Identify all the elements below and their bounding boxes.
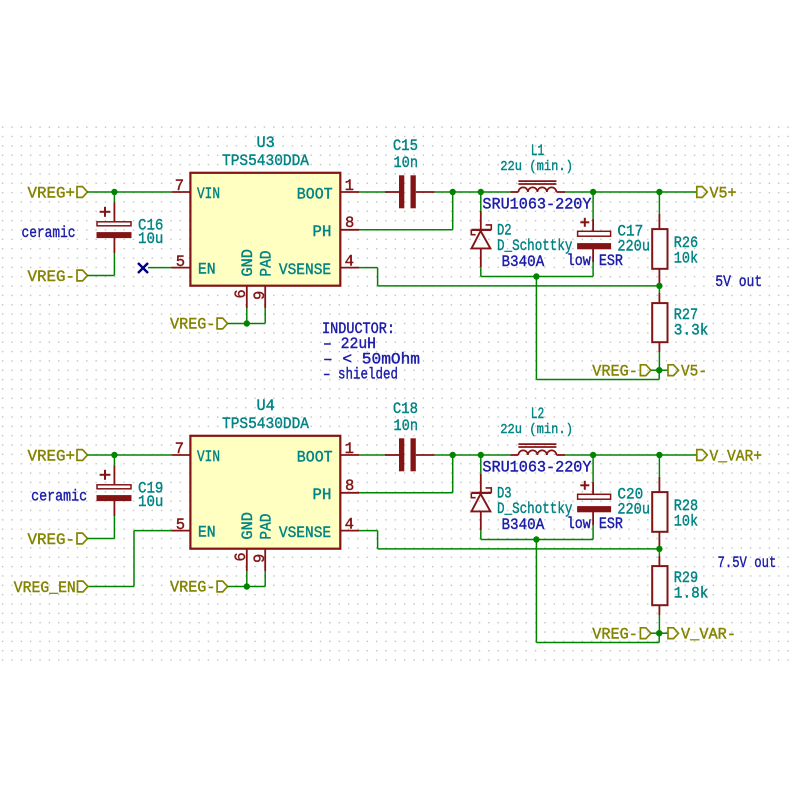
no-connect flag on EN	[138, 263, 148, 273]
svg-text:EN: EN	[198, 261, 216, 279]
resistor R28 10k	[658, 455, 660, 477]
wire output rail	[593, 191, 697, 193]
wire PH riser	[452, 192, 454, 230]
svg-text:10k: 10k	[674, 250, 698, 268]
wire BOOT to cap	[359, 191, 385, 193]
junction diode node	[478, 452, 484, 458]
svg-text:TPS5430DDA: TPS5430DDA	[222, 415, 310, 433]
svg-text:V5-: V5-	[681, 363, 707, 381]
pin 8 PH stub	[340, 492, 359, 494]
svg-text:C18: C18	[393, 400, 418, 418]
pin 1 BOOT stub	[340, 454, 359, 456]
pin 6 GND stub	[246, 549, 248, 571]
svg-text:10u: 10u	[138, 230, 163, 248]
resistor R29 1.8k	[658, 549, 660, 556]
wire VREG+ to VIN pin	[87, 191, 172, 193]
svg-text:5V out: 5V out	[715, 273, 762, 291]
svg-text:4: 4	[345, 253, 354, 271]
junction feedback node	[656, 546, 662, 552]
svg-text:BOOT: BOOT	[297, 448, 333, 466]
svg-text:7: 7	[175, 177, 184, 195]
wire feedback rail	[378, 548, 660, 550]
wire switch node to inductor	[481, 454, 511, 456]
svg-text:VREG+: VREG+	[28, 448, 76, 466]
svg-text:5: 5	[176, 253, 185, 271]
wire ground drop	[535, 540, 537, 643]
wire VREG- pentagon to junction	[228, 586, 247, 588]
wire pin6 to VREG- row	[246, 308, 248, 324]
diode D2 Schottky	[480, 192, 482, 211]
pin 5 EN stub	[172, 530, 191, 532]
svg-text:7: 7	[175, 440, 184, 458]
svg-text:C15: C15	[393, 137, 418, 155]
junction BOOT/PH node	[450, 452, 456, 458]
wire BOOT to cap	[359, 454, 385, 456]
svg-text:4: 4	[345, 516, 354, 534]
junction divider top	[656, 189, 662, 195]
svg-text:8: 8	[345, 477, 354, 495]
wire pin9 to junction	[247, 323, 265, 325]
wire pin6 to VREG- row	[246, 571, 248, 587]
svg-text:1.8k: 1.8k	[674, 584, 709, 602]
IC U4 TPS5430DDA body	[190, 436, 340, 549]
svg-text:SRU1063-220Y: SRU1063-220Y	[482, 459, 592, 477]
svg-text:EN: EN	[198, 524, 216, 542]
svg-text:10n: 10n	[394, 417, 419, 435]
wire pin9 down	[264, 571, 266, 587]
wire feedback rail	[378, 285, 660, 287]
junction output cap node	[590, 189, 596, 195]
pin 7 VIN stub	[172, 191, 190, 193]
junction GND/PAD	[244, 320, 250, 326]
wire inductor to output node	[565, 454, 593, 456]
junction divider top	[656, 452, 662, 458]
svg-text:8: 8	[345, 214, 354, 232]
pin 9 PAD stub	[264, 549, 266, 571]
svg-text:L1: L1	[531, 142, 545, 160]
svg-text:GND: GND	[239, 512, 257, 540]
junction feedback node	[656, 283, 662, 289]
wire EN drop	[133, 531, 135, 587]
svg-text:V_VAR-: V_VAR-	[681, 626, 736, 644]
capacitor C20 220u polarized	[592, 455, 594, 482]
svg-text:PH: PH	[312, 486, 331, 504]
wire junction to out- flag	[659, 369, 668, 371]
resistor R27 3.3k	[658, 286, 660, 293]
junction divider bottom	[656, 367, 662, 373]
wire diode-cap ground rail	[481, 539, 593, 541]
wire diode-cap ground rail	[481, 276, 593, 278]
svg-text:GND: GND	[239, 249, 257, 277]
wire rail riser to out-	[658, 633, 660, 642]
capacitor C18 10n	[385, 454, 399, 456]
junction ground rail	[533, 536, 539, 542]
svg-text:VREG+: VREG+	[28, 185, 76, 203]
wire PH riser	[452, 455, 454, 493]
svg-text:10n: 10n	[394, 154, 419, 172]
svg-text:VREG-: VREG-	[170, 316, 216, 334]
IC U3 TPS5430DDA body	[190, 173, 340, 286]
junction divider bottom	[656, 630, 662, 636]
wire pin9 down	[264, 308, 266, 324]
wire C-in bottom to VREG-	[113, 516, 115, 539]
svg-text:SRU1063-220Y: SRU1063-220Y	[482, 196, 592, 214]
svg-text:1: 1	[345, 440, 354, 458]
wire rail riser to out-	[658, 370, 660, 379]
wire VSENSE drop	[377, 268, 379, 286]
wire lowest rail	[536, 642, 659, 644]
wire VSENSE out	[359, 267, 378, 269]
wire EN to VREG_EN flag	[88, 586, 134, 588]
wire switch node	[453, 454, 481, 456]
svg-text:B340A: B340A	[502, 253, 545, 271]
wire lowest rail	[536, 379, 659, 381]
wire PH to riser	[359, 229, 453, 231]
wire PH to riser	[359, 492, 453, 494]
svg-text:22u (min.): 22u (min.)	[500, 159, 573, 175]
junction output cap node	[590, 452, 596, 458]
pin 4 VSENSE stub	[340, 267, 359, 269]
pin 5 EN stub	[172, 267, 191, 269]
wire VREG+ to VIN pin	[87, 454, 172, 456]
svg-text:VREG_EN: VREG_EN	[14, 579, 76, 597]
wire inductor to output node	[565, 191, 593, 193]
wire cap to switch node	[435, 454, 453, 456]
svg-text:low ESR: low ESR	[567, 252, 623, 270]
wire VREG- to junction	[651, 369, 659, 371]
wire VSENSE drop	[377, 531, 379, 549]
svg-text:U4: U4	[257, 397, 275, 415]
wire switch node	[453, 191, 481, 193]
svg-text:9: 9	[251, 554, 269, 563]
wire ground drop	[535, 277, 537, 380]
svg-text:PH: PH	[312, 223, 331, 241]
svg-text:6: 6	[232, 289, 250, 298]
svg-text:VIN: VIN	[197, 185, 220, 203]
pin 7 VIN stub	[172, 454, 190, 456]
svg-text:7.5V out: 7.5V out	[718, 554, 777, 572]
svg-text:TPS5430DDA: TPS5430DDA	[222, 152, 310, 170]
svg-text:VIN: VIN	[197, 448, 220, 466]
inductor L2 22u	[510, 454, 518, 456]
pin 4 VSENSE stub	[340, 530, 359, 532]
svg-text:B340A: B340A	[502, 516, 545, 534]
junction GND/PAD	[244, 583, 250, 589]
svg-text:ceramic: ceramic	[31, 488, 87, 506]
pin 8 PH stub	[340, 229, 359, 231]
wire VREG- to cap	[87, 538, 114, 540]
hierarchical label V_VAR+	[697, 450, 708, 461]
capacitor C15 10n	[385, 191, 399, 193]
wire VREG- to cap	[87, 275, 114, 277]
svg-text:VSENSE: VSENSE	[279, 524, 331, 542]
svg-text:PAD: PAD	[258, 251, 276, 277]
svg-text:6: 6	[232, 552, 250, 561]
svg-text:U3: U3	[257, 134, 275, 152]
wire C-in bottom to VREG-	[113, 253, 115, 276]
svg-text:VREG-: VREG-	[28, 268, 76, 286]
junction ground rail	[533, 273, 539, 279]
pin 1 BOOT stub	[340, 191, 359, 193]
wire EN to no-connect	[148, 267, 172, 269]
svg-text:VREG-: VREG-	[592, 626, 638, 644]
svg-text:VREG-: VREG-	[592, 363, 638, 381]
svg-text:ceramic: ceramic	[22, 224, 76, 242]
svg-text:L2: L2	[531, 405, 545, 423]
resistor R26 10k	[658, 192, 660, 214]
wire EN left	[134, 530, 172, 532]
junction BOOT/PH node	[450, 189, 456, 195]
wire pin9 to junction	[247, 586, 265, 588]
wire VSENSE out	[359, 530, 378, 532]
diode D3 Schottky	[480, 455, 482, 474]
svg-text:PAD: PAD	[258, 514, 276, 540]
wire VREG- to junction	[651, 632, 659, 634]
svg-text:BOOT: BOOT	[297, 185, 333, 203]
wire VREG- pentagon to junction	[228, 323, 247, 325]
svg-text:V_VAR+: V_VAR+	[710, 448, 763, 466]
svg-text:V5+: V5+	[710, 185, 737, 203]
wire cap to switch node	[435, 191, 453, 193]
inductor L1 22u	[510, 191, 518, 193]
junction at C-in top	[111, 189, 117, 195]
svg-text:22u (min.): 22u (min.)	[500, 422, 573, 438]
svg-text:5: 5	[176, 516, 185, 534]
hierarchical label V5-	[668, 365, 679, 376]
junction at C-in top	[111, 452, 117, 458]
svg-text:low ESR: low ESR	[567, 515, 623, 533]
wire switch node to inductor	[481, 191, 511, 193]
svg-text:– shielded: – shielded	[323, 366, 398, 384]
svg-text:1: 1	[345, 177, 354, 195]
hierarchical label V_VAR-	[668, 628, 679, 639]
pin 6 GND stub	[246, 286, 248, 308]
junction diode node	[478, 189, 484, 195]
svg-text:10u: 10u	[138, 493, 163, 511]
svg-text:VREG-: VREG-	[170, 579, 216, 597]
capacitor C17 220u polarized	[592, 192, 594, 219]
svg-text:VSENSE: VSENSE	[279, 261, 331, 279]
wire junction to out- flag	[659, 632, 668, 634]
pin 9 PAD stub	[264, 286, 266, 308]
wire output rail	[593, 454, 697, 456]
svg-text:10k: 10k	[674, 513, 698, 531]
capacitor C19 10u polarized	[113, 455, 115, 466]
svg-text:VREG-: VREG-	[28, 531, 76, 549]
svg-text:9: 9	[251, 291, 269, 300]
hierarchical label V5+	[697, 187, 708, 198]
svg-text:3.3k: 3.3k	[674, 321, 709, 339]
capacitor C16 10u polarized	[113, 192, 115, 203]
